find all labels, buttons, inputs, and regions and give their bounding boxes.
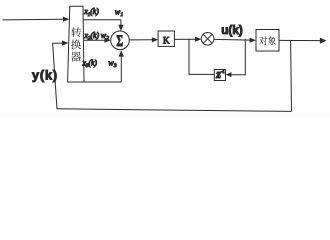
wire: plant output arrow to right edge xyxy=(279,38,327,44)
block: unit delay z^-1 xyxy=(214,70,225,81)
svg-text:Σ: Σ xyxy=(116,32,123,50)
svg-text:u(k): u(k) xyxy=(221,24,243,37)
wire: delay output back left and up to junction xyxy=(189,39,214,75)
wire: x1 output over to summer top xyxy=(83,20,123,31)
multiplier circle with X xyxy=(201,32,214,45)
summer circle xyxy=(111,31,130,50)
char qi xyxy=(71,52,81,62)
wire: left feedback rise xyxy=(53,43,57,109)
char zhuan xyxy=(71,27,81,37)
label sigma xyxy=(116,32,123,50)
wire: multiplier to plant xyxy=(214,38,256,43)
wire: delay tap down from u(k) line xyxy=(244,39,246,75)
wire: y(k) arrow into converter xyxy=(52,40,68,45)
wire: y(k) tap down from output xyxy=(290,41,293,112)
svg-text:y(k): y(k) xyxy=(32,69,58,83)
block: converter (zhuan-huan-qi) xyxy=(68,6,84,82)
char huan xyxy=(71,40,81,50)
wire: into delay block right side xyxy=(226,72,246,77)
wire: K to multiplier, junction with delay loop xyxy=(174,37,201,42)
block: plant (dui-xiang) xyxy=(256,30,279,52)
wire: external input arrow into converter xyxy=(3,17,70,22)
wire: summer to gain block K xyxy=(129,37,158,42)
wire: bottom feedback run xyxy=(57,109,292,112)
wire: x3 output along bottom up to summer bottom xyxy=(84,50,124,82)
label z^-1 xyxy=(215,67,225,81)
svg-text:K: K xyxy=(163,36,170,46)
wire: x2 output into summer left xyxy=(84,38,111,43)
block: gain K xyxy=(158,31,174,46)
char xiang xyxy=(268,36,276,45)
char dui xyxy=(259,36,267,45)
